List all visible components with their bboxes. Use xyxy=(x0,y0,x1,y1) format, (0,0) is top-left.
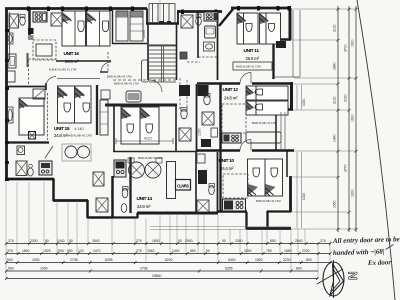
wall: service col right unit11 xyxy=(217,12,219,80)
wall: unit13 room left xyxy=(113,105,115,152)
svg-text:1400: 1400 xyxy=(172,249,180,253)
svg-text:1020: 1020 xyxy=(302,99,306,106)
dim chain row4 xyxy=(6,270,318,272)
wall: unit10 bottom xyxy=(246,227,291,230)
kitchen block u12 xyxy=(198,85,209,96)
dim chain row1 xyxy=(6,243,330,245)
dim chain row3 xyxy=(6,262,330,264)
svg-text:275: 275 xyxy=(8,239,14,243)
svg-text:1930: 1930 xyxy=(40,266,48,270)
svg-text:BHD KLMN 41 17M: BHD KLMN 41 17M xyxy=(107,75,132,79)
wall: unit12 balcony ledge xyxy=(275,108,293,111)
wall: unit14 left vertical xyxy=(111,176,114,218)
svg-text:2130: 2130 xyxy=(333,24,337,32)
service shower unit13 xyxy=(179,128,191,141)
unit14 svc: toilet xyxy=(209,185,215,194)
svg-text:500: 500 xyxy=(7,258,13,262)
wall: unit11 chamfer xyxy=(219,9,233,26)
svg-text:2200: 2200 xyxy=(302,249,310,253)
shower unit16 xyxy=(9,14,19,28)
right chain B xyxy=(348,6,350,232)
door arc stair xyxy=(150,80,162,92)
svg-text:2130: 2130 xyxy=(333,96,337,104)
wall: unit14 bottom step vert xyxy=(113,213,138,218)
svg-text:BHD KLMN 41 17M: BHD KLMN 41 17M xyxy=(236,65,261,69)
sink u12 xyxy=(211,128,218,137)
wall: unit12 bottom / unit10 top xyxy=(197,149,294,152)
svg-text:BHD KLMN 41 17M: BHD KLMN 41 17M xyxy=(252,121,277,125)
wall: top exterior unit11 xyxy=(231,7,291,10)
unit14 bath: bidet xyxy=(121,204,127,213)
svg-text:BHD KLMN 41 17M: BHD KLMN 41 17M xyxy=(67,134,92,138)
svg-text:90: 90 xyxy=(178,239,182,243)
unit14 svc: shower xyxy=(197,200,209,212)
svg-text:1800: 1800 xyxy=(255,258,263,262)
door leaf lowerleft xyxy=(45,146,53,158)
wall: unit13 room right xyxy=(175,105,177,152)
bed pair unit10 xyxy=(248,159,283,196)
svg-text:800: 800 xyxy=(296,266,302,270)
balcony edge lines right xyxy=(297,85,302,228)
svg-text:6295: 6295 xyxy=(105,258,113,262)
svg-text:1430: 1430 xyxy=(333,134,337,142)
svg-text:6225: 6225 xyxy=(111,190,115,198)
corridor line xyxy=(57,78,100,80)
sink box lowerleft xyxy=(17,146,25,155)
wall: lower-left room bottom xyxy=(6,178,54,181)
svg-text:25.0 m²: 25.0 m² xyxy=(246,56,260,61)
unit14 bath: toilet xyxy=(122,188,128,198)
svg-text:2020: 2020 xyxy=(344,94,348,102)
toilet u12 xyxy=(204,95,210,105)
wall: unit12 left xyxy=(219,84,222,151)
window tick left wall xyxy=(5,29,9,32)
porch wall ticks xyxy=(159,21,164,25)
svg-text:N: N xyxy=(346,271,360,280)
strip box unit11 xyxy=(233,62,272,70)
shower unit11 xyxy=(181,15,193,28)
dim chain row2 xyxy=(6,253,330,255)
window tick row top xyxy=(27,7,30,12)
svg-text:3770: 3770 xyxy=(344,164,348,172)
svg-text:950: 950 xyxy=(67,249,73,253)
dining set unit14 circle a xyxy=(129,162,145,178)
right chain C xyxy=(355,6,357,232)
dashed table unit16 xyxy=(33,40,56,60)
store furniture a xyxy=(116,11,128,41)
svg-text:4 140: 4 140 xyxy=(75,127,84,131)
svg-text:CLNRS: CLNRS xyxy=(177,184,189,189)
svg-text:UNIT 11: UNIT 11 xyxy=(244,48,260,54)
wall: service col left unit11 xyxy=(197,12,199,58)
svg-text:24.8 m²: 24.8 m² xyxy=(65,59,79,64)
wall: unit10 bottom left vertical xyxy=(245,212,247,229)
toilet unit16 xyxy=(20,17,26,25)
wall: unit13 room top xyxy=(105,104,177,107)
dining circles unit15 xyxy=(65,146,77,158)
row1 ticks xyxy=(5,242,332,245)
wardrobe diag unit15 xyxy=(33,89,45,99)
row4 ticks xyxy=(5,270,293,273)
wall: unit11 right vertical to corridor xyxy=(272,39,274,79)
wall: left exterior inner face xyxy=(9,12,11,60)
wall: unit14 service col right xyxy=(217,152,219,213)
svg-text:1900: 1900 xyxy=(351,39,355,47)
witness lines bottom xyxy=(6,182,330,279)
svg-text:2900: 2900 xyxy=(185,239,193,243)
svg-text:3200: 3200 xyxy=(244,249,252,253)
svg-text:4121: 4121 xyxy=(144,137,152,141)
svg-text:UNIT 16: UNIT 16 xyxy=(64,51,80,57)
xbox lower xyxy=(96,198,108,212)
wall: unit16 bathroom divider xyxy=(28,9,31,40)
stair treads xyxy=(149,46,176,82)
wall: left exterior xyxy=(5,9,8,181)
unit14 svc: kitchen circles xyxy=(197,154,205,163)
dashed wardrobe unit12 xyxy=(222,104,246,133)
svg-text:3700: 3700 xyxy=(344,44,348,52)
wall: unit13 bottom xyxy=(113,151,198,153)
wall: unit10 step xyxy=(266,211,268,229)
bed unit12 b xyxy=(246,101,288,115)
window ticks on exterior walls xyxy=(5,6,291,181)
svg-text:1800: 1800 xyxy=(22,249,30,253)
svg-text:2200: 2200 xyxy=(283,258,291,262)
svg-text:1500: 1500 xyxy=(142,30,146,38)
svg-text:275: 275 xyxy=(136,239,142,243)
svg-text:24.4 m²: 24.4 m² xyxy=(220,166,234,171)
stair entry porch xyxy=(149,4,175,23)
svg-text:B BHD KLMN 41 17M: B BHD KLMN 41 17M xyxy=(49,68,77,72)
svg-text:750: 750 xyxy=(266,249,272,253)
svg-text:UNIT 14: UNIT 14 xyxy=(137,196,153,202)
svg-text:6295: 6295 xyxy=(225,266,233,270)
shower lowerleft xyxy=(16,161,27,176)
door arc unit12 xyxy=(240,73,251,84)
wall: corridor stub left xyxy=(100,71,108,73)
wall: top exterior unit16 xyxy=(5,7,147,10)
compass cross line xyxy=(317,269,343,284)
compass needle arrow xyxy=(330,264,344,296)
wall: unit10 balcony xyxy=(289,176,292,212)
svg-text:1860: 1860 xyxy=(333,62,337,70)
right chain A xyxy=(337,6,339,232)
svg-text:UNIT 12: UNIT 12 xyxy=(223,87,239,93)
svg-text:2300: 2300 xyxy=(30,239,38,243)
radiator left of stair xyxy=(142,60,149,82)
corridor desk box b xyxy=(8,71,16,82)
dashed u13 col xyxy=(180,78,187,110)
wall: unit14 bath left col right xyxy=(129,157,131,213)
boundary diagonal xyxy=(357,0,395,300)
svg-text:1930: 1930 xyxy=(32,258,40,262)
chairs unit14 xyxy=(128,158,134,163)
tall cupboard xyxy=(167,162,176,199)
svg-text:90: 90 xyxy=(45,239,49,243)
balcony unit12 xyxy=(281,112,285,150)
wall: unit16 bottom xyxy=(56,60,111,62)
svg-text:2708: 2708 xyxy=(70,258,78,262)
wall: stair block step down xyxy=(146,9,148,25)
fridge unit13 xyxy=(126,91,141,102)
CLNRS box xyxy=(176,180,191,191)
compass circle xyxy=(323,262,344,296)
svg-text:90: 90 xyxy=(222,239,226,243)
unit14 bath: kitchen dark xyxy=(114,160,126,177)
witness line stair top xyxy=(159,0,161,22)
wall: unit10 left xyxy=(219,151,221,212)
wall: stair right xyxy=(176,24,178,80)
balcony unit11 xyxy=(275,10,300,77)
service kitchen unit13 xyxy=(179,85,190,96)
wall: unit14 bottom left horiz xyxy=(87,216,113,219)
stove unit15 xyxy=(29,132,36,140)
wall: unit16/store divider vertical xyxy=(112,10,114,44)
svg-text:UNIT 10: UNIT 10 xyxy=(219,158,235,164)
couch unit12 xyxy=(246,132,281,143)
wall: unit11 lower right horiz xyxy=(272,38,291,41)
wall: unit14 service col left xyxy=(195,152,197,213)
svg-text:2340: 2340 xyxy=(235,239,243,243)
row2 ticks xyxy=(5,252,332,255)
wall: lower-left step vertical xyxy=(52,179,55,202)
wall: unit12 right xyxy=(290,82,293,110)
wardrobe strip right unit15 xyxy=(100,100,108,135)
wall: unit10 right upper xyxy=(286,151,288,177)
small box left of col xyxy=(180,52,187,59)
svg-text:24.8 m²: 24.8 m² xyxy=(54,133,68,138)
kitchen unit10 xyxy=(223,199,246,211)
svg-text:930: 930 xyxy=(58,249,64,253)
svg-text:1900: 1900 xyxy=(351,189,355,197)
bed unit11 b xyxy=(260,13,281,44)
svg-text:2470: 2470 xyxy=(93,249,101,253)
wall: store bottom xyxy=(112,43,147,45)
toilet unit11 xyxy=(196,17,202,26)
wall: unit12 service left xyxy=(196,84,198,151)
shower u12 xyxy=(202,112,214,125)
svg-text:375: 375 xyxy=(7,249,13,253)
big bed unit15 xyxy=(19,98,44,135)
wall: step horiz xyxy=(53,199,88,202)
svg-text:1800: 1800 xyxy=(152,239,160,243)
kitchen lowerleft xyxy=(39,161,52,175)
fridge unit11 xyxy=(205,26,216,38)
dining set unit14 circle b xyxy=(145,162,161,178)
svg-text:850: 850 xyxy=(190,249,196,253)
wardrobe xbox unit16 xyxy=(51,13,63,26)
dashed corridor lines xyxy=(187,57,218,62)
svg-text:Ex door: Ex door xyxy=(367,258,392,267)
corridor desk box a xyxy=(8,54,16,68)
svg-text:UNIT 15: UNIT 15 xyxy=(54,126,70,132)
wall: unit15 top xyxy=(6,83,46,90)
svg-text:2840: 2840 xyxy=(295,239,303,243)
sink col unit11 xyxy=(204,42,215,51)
svg-text:90: 90 xyxy=(69,239,73,243)
wall: top exterior unit11 service xyxy=(177,10,222,13)
bed pair unit16 b xyxy=(87,11,111,46)
wall: unit14 bottom xyxy=(137,212,218,215)
door arc unit16 hall xyxy=(101,62,111,72)
svg-text:3540: 3540 xyxy=(92,239,100,243)
stair stringer xyxy=(162,46,164,82)
svg-text:120: 120 xyxy=(78,249,84,253)
wall: bathroom block rise xyxy=(177,12,179,24)
wall: unit12 right lower xyxy=(275,109,277,151)
svg-text:BHD KLMN 41 17M: BHD KLMN 41 17M xyxy=(114,82,139,86)
bed pair unit15 xyxy=(58,86,92,123)
wall: unit15 bottom xyxy=(6,141,49,143)
svg-text:850: 850 xyxy=(270,239,276,243)
wall: unit10 bottom right horiz xyxy=(267,210,291,212)
wall: unit12 top xyxy=(197,82,293,85)
door arc unit15 xyxy=(46,77,56,87)
store furniture b xyxy=(130,11,143,41)
svg-text:500: 500 xyxy=(8,266,14,270)
wall: unit15 right xyxy=(96,85,98,135)
svg-text:2708: 2708 xyxy=(140,266,148,270)
svg-text:24.9 m²: 24.9 m² xyxy=(137,204,151,209)
svg-text:800: 800 xyxy=(306,258,312,262)
svg-text:1250: 1250 xyxy=(198,128,202,136)
bed pair unit13 xyxy=(121,107,159,144)
row3 ticks xyxy=(5,261,332,264)
svg-text:handed with ~|68|: handed with ~|68| xyxy=(333,248,385,257)
svg-text:19800: 19800 xyxy=(152,274,162,278)
wall: step vertical 2 xyxy=(86,200,89,218)
svg-text:275: 275 xyxy=(136,249,142,253)
bed unit11 a xyxy=(237,13,258,44)
block unit11 right xyxy=(276,41,286,48)
wall: stair top xyxy=(146,22,179,25)
svg-text:BHD KLMN 41 17M: BHD KLMN 41 17M xyxy=(256,199,281,203)
svg-text:5400: 5400 xyxy=(228,258,236,262)
wall: stair left xyxy=(147,24,149,80)
door arc unit10 xyxy=(240,140,251,151)
unit14 svc: dark block xyxy=(198,170,207,184)
stair landing line xyxy=(149,44,176,46)
witness lines right xyxy=(291,9,356,229)
bed unit12 a xyxy=(246,86,288,100)
svg-text:2562: 2562 xyxy=(147,249,155,253)
tick on boundary xyxy=(386,245,394,250)
dim chain total xyxy=(6,278,318,280)
kitchen unit12 xyxy=(222,133,241,143)
svg-text:8200: 8200 xyxy=(165,258,173,262)
compass needle vertical xyxy=(333,260,335,298)
service toilet unit13 xyxy=(181,109,187,119)
bed pair unit16 a xyxy=(62,11,86,46)
dashed wardrobe unit10 xyxy=(223,174,248,198)
svg-text:1440: 1440 xyxy=(57,239,65,243)
dashed corridor mid xyxy=(113,79,177,81)
dashed lines unit15 xyxy=(47,93,49,140)
svg-text:1850: 1850 xyxy=(284,249,292,253)
svg-text:90: 90 xyxy=(206,249,210,253)
kitchen dark u12 low xyxy=(201,139,211,147)
svg-text:1950: 1950 xyxy=(333,200,337,208)
svg-text:275: 275 xyxy=(320,239,326,243)
sink unit16 left wall xyxy=(8,33,14,44)
svg-text:1529: 1529 xyxy=(43,249,51,253)
wardrobe xbox unit14 xyxy=(93,172,104,186)
terrace slab unit14/10 xyxy=(150,227,290,230)
dim 4121 inside unit13 xyxy=(116,138,173,144)
toilet lowerleft xyxy=(28,168,34,176)
wall: unit10 kitchen bottom xyxy=(218,210,247,213)
kitchen unit11 xyxy=(204,12,218,21)
svg-text:24.8 m²: 24.8 m² xyxy=(224,96,238,101)
kitchen unit16 xyxy=(33,12,47,22)
sink unit15 xyxy=(8,107,14,123)
svg-text:BHD KLMN 41 17M: BHD KLMN 41 17M xyxy=(138,156,163,160)
wall: right exterior unit11 xyxy=(289,8,292,40)
column block unit16 xyxy=(28,28,34,34)
svg-text:1900: 1900 xyxy=(351,114,355,122)
svg-text:1020: 1020 xyxy=(302,193,306,200)
